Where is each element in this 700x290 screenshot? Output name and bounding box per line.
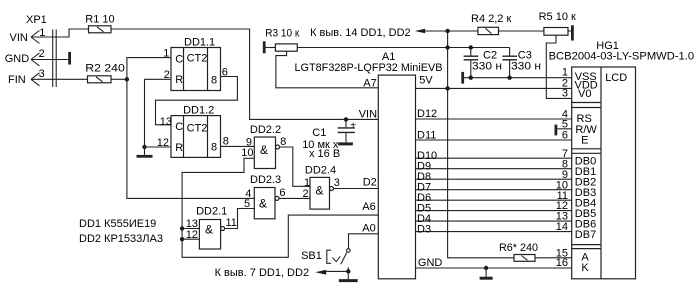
svg-text:R3 10 к: R3 10 к (265, 28, 299, 40)
button SB1 (327, 249, 350, 272)
node FIN junction (125, 77, 129, 81)
gate DD2.2 (254, 137, 279, 169)
wire D6 to LCD pin 11 DB4 (416, 199, 572, 201)
wire A0 to SB1 (349, 234, 379, 249)
svg-text:C: C (175, 121, 183, 133)
node DD2.1 pin 13 junction (180, 226, 184, 230)
svg-text:A0: A0 (362, 222, 375, 234)
LCD module HG1 outer box (572, 67, 636, 279)
svg-text:+: + (350, 121, 356, 132)
svg-text:D2: D2 (363, 176, 377, 188)
svg-text:330 н: 330 н (511, 61, 541, 73)
resistor R6 (514, 255, 535, 262)
svg-text:CT2: CT2 (187, 53, 208, 65)
resistor R5 trimmer (544, 28, 572, 99)
wire to DD2.1 pin 13 (182, 228, 199, 230)
svg-text:1: 1 (163, 47, 169, 59)
svg-text:6: 6 (562, 129, 568, 141)
MCU module A1 (378, 75, 415, 279)
svg-text:DD2.4: DD2.4 (305, 165, 336, 177)
wire D12 to LCD pin 4 RS (416, 118, 572, 120)
wire D7 to LCD pin 10 DB3 (416, 189, 572, 191)
node DD2.1 pin 12 junction (180, 237, 184, 241)
svg-text:1: 1 (39, 27, 45, 39)
svg-text:2: 2 (303, 188, 309, 200)
arrow to pin 7 DD1 DD2 (315, 270, 326, 275)
svg-text:3: 3 (334, 177, 340, 189)
svg-text:2: 2 (39, 48, 45, 60)
wire DD2.2 pin 8 output to DD2.4 pin 1 (280, 147, 311, 186)
svg-text:&: & (259, 196, 267, 210)
wire D9 to LCD pin 8 DB1 (416, 168, 572, 170)
svg-text:8: 8 (211, 141, 217, 153)
node C2 bottom junction (469, 76, 473, 80)
node SB1 ground junction (346, 269, 350, 273)
ground symbol under DD1.2 (137, 147, 153, 156)
capacitor C1 (338, 119, 355, 142)
svg-text:DD1.2: DD1.2 (183, 105, 214, 117)
capacitor C3 (502, 48, 517, 78)
svg-text:5V: 5V (419, 75, 433, 87)
svg-text:13: 13 (160, 116, 172, 128)
svg-text:A7: A7 (363, 78, 376, 90)
wire D4 to LCD pin 13 DB6 (416, 220, 572, 222)
svg-text:CT2: CT2 (187, 122, 208, 134)
wire top power arrow to R4 (425, 30, 478, 32)
wire FIN down to DD2.3 pin 4 (127, 79, 254, 198)
svg-text:A6: A6 (362, 201, 375, 213)
wire DD2.3 pin 6 output to DD2.4 pin 2 (279, 197, 310, 199)
node C3 bottom junction (507, 76, 511, 80)
ground chassis bar VSS (461, 72, 464, 84)
wire D10 to LCD pin 7 DB0 (416, 157, 572, 159)
svg-text:х 16 В: х 16 В (309, 148, 340, 160)
svg-text:LCD: LCD (605, 72, 627, 84)
ground bar under C1 (338, 142, 353, 145)
node VIN/C1 junction (344, 117, 348, 121)
gate DD2.1 (199, 220, 224, 250)
wire D8 to LCD pin 9 DB2 (416, 178, 572, 180)
svg-text:XP1: XP1 (26, 14, 47, 26)
svg-text:R5 10 к: R5 10 к (539, 11, 576, 23)
svg-text:D3: D3 (417, 223, 431, 235)
capacitor C2 (464, 48, 479, 78)
svg-text:12: 12 (186, 229, 198, 241)
svg-text:DD2.2: DD2.2 (250, 124, 281, 136)
ground chassis bar at LCD pin 5 (555, 125, 558, 136)
ground chassis bar right of R5 (571, 25, 574, 40)
svg-text:2: 2 (164, 69, 170, 81)
svg-text:VIN: VIN (359, 108, 377, 120)
svg-text:&: & (260, 143, 268, 157)
svg-text:R4 2,2 к: R4 2,2 к (471, 13, 511, 25)
wire DD1.1 pin 6 output to DD1.2 pin 13 C (156, 77, 238, 125)
ground chassis bar left of R3 (263, 41, 266, 53)
resistor R2 (88, 76, 112, 83)
resistor R1 (89, 26, 112, 33)
svg-text:DD2.3: DD2.3 (250, 174, 281, 186)
svg-text:8: 8 (223, 136, 229, 148)
svg-text:11: 11 (226, 217, 237, 229)
node rail 5V VDD junction (445, 86, 449, 90)
wire R4 to R5 (499, 30, 544, 32)
svg-text:&: & (316, 184, 324, 198)
resistor R4 (478, 27, 499, 34)
svg-text:LGT8F328P-LQFP32 MiniEVB: LGT8F328P-LQFP32 MiniEVB (295, 62, 443, 74)
node rail C2 wire junction (445, 45, 449, 49)
svg-text:D12: D12 (417, 108, 437, 120)
svg-text:8: 8 (211, 74, 217, 86)
svg-text:6: 6 (279, 187, 285, 199)
svg-text:&: & (205, 223, 213, 237)
wire DD2.2 pin 10 net to DD2.1 inputs and A1 A6 (182, 158, 378, 257)
svg-text:D11: D11 (417, 130, 436, 142)
wire D11 to LCD pin 6 E (416, 139, 572, 141)
wire DD1.1 pin 2 R to ground rail (145, 79, 172, 147)
svg-text:DD2.1: DD2.1 (196, 206, 227, 218)
svg-text:3: 3 (39, 68, 45, 80)
wire 5V VDD to LCD pin 2 (416, 87, 572, 89)
wire DD1.2 pin 8 output to DD2.2 pin 9 (221, 145, 255, 147)
gate DD2.3 (254, 188, 279, 219)
svg-text:14: 14 (556, 221, 568, 233)
svg-text:R: R (175, 74, 183, 86)
counter DD1.2 (171, 116, 221, 158)
svg-text:10: 10 (241, 147, 253, 159)
svg-text:DD1 К555ИЕ19: DD1 К555ИЕ19 (79, 218, 156, 230)
arrow to pin 14 DD1 DD2 (415, 29, 425, 34)
wire arrow to SB1 node (326, 270, 348, 272)
node junction R rail (142, 145, 146, 149)
svg-text:R: R (175, 142, 183, 154)
wire to DD2.1 pin 12 (182, 238, 199, 240)
svg-text:VIN: VIN (10, 32, 28, 44)
svg-text:К выв. 7 DD1, DD2: К выв. 7 DD1, DD2 (215, 267, 309, 279)
svg-text:DD2 КР1533ЛА3: DD2 КР1533ЛА3 (79, 233, 163, 245)
counter DD1.1 (171, 48, 221, 91)
svg-text:R1 10: R1 10 (85, 14, 114, 26)
svg-text:8: 8 (280, 136, 286, 148)
pin 1 VIN of XP1 (31, 29, 89, 44)
svg-text:3: 3 (562, 87, 568, 99)
wire ground to LCD pin 5 RW (557, 128, 572, 130)
wire FIN to DD1.1 pin 1 C (127, 58, 171, 80)
connector XP1 (53, 30, 57, 88)
svg-text:K: K (581, 262, 589, 274)
svg-text:FIN: FIN (8, 74, 26, 86)
svg-text:R6* 240: R6* 240 (499, 242, 538, 254)
wire DD2.4 pin 3 output to A1 D2 (334, 188, 379, 190)
wire VIN net from R1 to A1 VIN (111, 29, 378, 119)
svg-text:6: 6 (222, 66, 228, 78)
wire to DD1.2 pin 12 R (145, 146, 172, 148)
svg-text:DD1.1: DD1.1 (184, 37, 215, 49)
svg-text:DB7: DB7 (575, 229, 596, 241)
resistor R3 trimmer (266, 44, 379, 88)
ground symbol under SB1 (339, 271, 358, 280)
pin numbers LCD right aligned (556, 67, 568, 270)
wire R3 to +5V rail and C2 C3 tops (297, 47, 509, 49)
svg-text:GND: GND (5, 53, 30, 65)
ground symbol under GND wire (480, 268, 493, 278)
wire D5 to LCD pin 12 DB5 (416, 210, 572, 212)
wire +5V vertical rail (448, 31, 514, 258)
svg-text:BCB2004-03-LY-SPMWD-1.0: BCB2004-03-LY-SPMWD-1.0 (549, 50, 695, 62)
ground chassis bar at XP1 pin 2 (68, 52, 71, 65)
svg-text:R2 240: R2 240 (85, 63, 125, 75)
pin 3 FIN of XP1 (31, 73, 88, 86)
svg-text:12: 12 (157, 137, 169, 149)
svg-text:V0: V0 (578, 88, 591, 100)
svg-text:C1: C1 (312, 127, 326, 139)
wire ground to LCD pin 1 VSS (464, 77, 572, 79)
svg-text:C: C (175, 53, 183, 65)
gate DD2.4 (310, 177, 334, 209)
wire R2 to FIN node (111, 78, 127, 80)
svg-text:330 н: 330 н (472, 61, 502, 73)
svg-text:E: E (581, 135, 588, 147)
svg-text:16: 16 (556, 257, 568, 269)
svg-text:5: 5 (244, 198, 250, 210)
svg-text:GND: GND (418, 257, 443, 269)
wire DD2.1 pin 11 output to DD2.3 pin 5 (225, 209, 255, 229)
wire A1 GND to LCD pin 16 K (416, 267, 572, 269)
pin 2 GND of XP1 (31, 53, 68, 66)
svg-text:К выв. 14 DD1, DD2: К выв. 14 DD1, DD2 (310, 27, 411, 39)
node C2 top junction (469, 45, 473, 49)
wire D3 to LCD pin 14 DB7 (416, 231, 572, 233)
node GND junction (484, 266, 488, 270)
node rail R4 junction (445, 29, 449, 33)
svg-text:SB1: SB1 (301, 250, 322, 262)
wire R6 to LCD pin 15 A (535, 257, 572, 259)
